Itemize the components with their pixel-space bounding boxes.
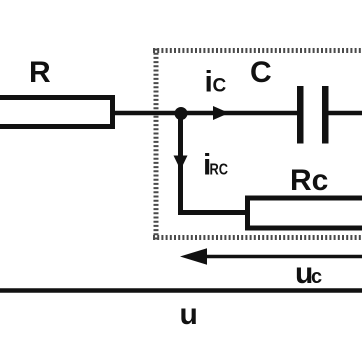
svg-text:RC: RC [210,162,229,179]
svg-text:c: c [311,266,322,288]
svg-text:C: C [250,56,272,89]
svg-text:Rc: Rc [290,164,328,197]
svg-text:C: C [213,76,227,97]
svg-text:R: R [29,56,51,89]
svg-text:u: u [180,298,198,331]
